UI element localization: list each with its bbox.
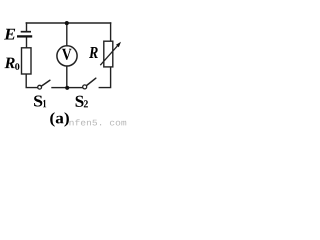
wire left branch to battery xyxy=(26,23,28,31)
wire battery to R0 xyxy=(26,37,28,47)
label R0 subscript 0 xyxy=(15,63,19,70)
wire R0 to bottom-left corner xyxy=(26,74,38,88)
switch S2 xyxy=(83,78,96,89)
wire top horizontal xyxy=(26,22,110,24)
label S2 subscript 2 xyxy=(84,100,88,107)
wire voltmeter top lead xyxy=(66,23,68,46)
switch S1 xyxy=(38,80,50,89)
wire S2 contact to bottom-right corner xyxy=(99,67,110,88)
node top junction xyxy=(65,21,69,25)
wire right branch top xyxy=(110,23,112,41)
label E xyxy=(4,29,15,40)
label S2 letter S xyxy=(76,96,84,107)
resistor R0 xyxy=(22,48,32,74)
label S1 subscript 1 xyxy=(43,100,46,107)
label R xyxy=(89,47,98,58)
rheostat R xyxy=(100,41,121,67)
label watermark xyxy=(70,119,127,125)
label (a) xyxy=(50,112,69,127)
voltmeter U1 circle xyxy=(57,46,77,66)
label S1 letter S xyxy=(34,96,42,107)
label R0 letter R xyxy=(5,58,15,69)
wire bottom node to S2 xyxy=(69,87,83,89)
battery E bottom plate (long, thick) xyxy=(17,35,32,37)
node bottom junction xyxy=(65,86,69,90)
battery E top plate (short) xyxy=(21,31,31,33)
label voltmeter V glyph xyxy=(62,49,72,60)
wire S1 contact to bottom node xyxy=(52,87,66,89)
wire voltmeter bottom lead xyxy=(66,66,68,88)
